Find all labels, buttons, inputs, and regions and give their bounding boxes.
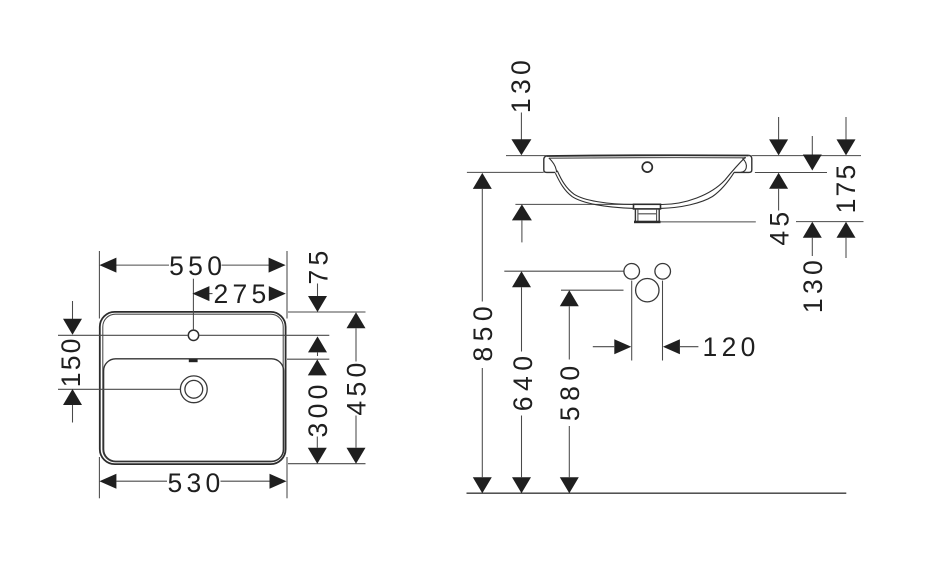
svg-text:75: 75	[303, 246, 333, 284]
svg-text:850: 850	[468, 301, 498, 362]
svg-text:640: 640	[508, 351, 538, 412]
svg-text:580: 580	[555, 360, 585, 421]
svg-text:275: 275	[213, 279, 270, 309]
svg-text:550: 550	[169, 251, 226, 281]
svg-text:130: 130	[798, 256, 828, 313]
svg-text:120: 120	[703, 332, 760, 362]
svg-text:45: 45	[765, 208, 795, 246]
svg-text:130: 130	[506, 56, 536, 113]
svg-text:530: 530	[167, 468, 224, 498]
svg-text:300: 300	[303, 380, 333, 437]
svg-text:450: 450	[342, 358, 372, 415]
svg-text:150: 150	[56, 336, 86, 387]
svg-text:175: 175	[831, 163, 861, 214]
